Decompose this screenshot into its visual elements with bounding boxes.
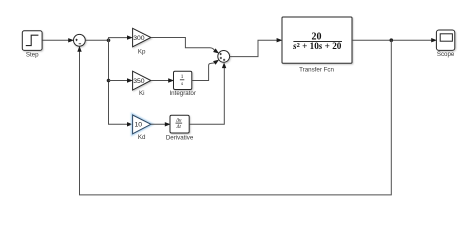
svg-text:Scope: Scope [437,51,455,58]
Sum2 plus sign upper-left [220,53,222,55]
wire Kd to Derivative [151,122,171,126]
scope block Scope [436,30,454,50]
gain block Kd value 10 (selected, blue halo) [133,115,151,134]
svg-text:1: 1 [181,74,184,80]
Sum1 plus sign (left input) [75,39,77,41]
wire branch B to Ki [109,78,133,82]
integrator block 1/s [174,71,192,89]
wire Transfer Fcn to Scope [352,38,437,42]
svg-text:300: 300 [133,35,145,42]
wire Derivative to Sum2 bottom input [189,62,226,124]
wire Integrator to Sum2 lower-left input [192,58,221,81]
svg-text:s2 + 10s + 20: s2 + 10s + 20 [292,41,342,51]
wire Step to Sum1 [42,38,74,42]
Sum2 plus sign lower-left [220,57,222,59]
Sum1 minus sign (bottom input) [79,43,81,45]
node branch A (to Kp) [107,39,111,43]
svg-text:Ki: Ki [139,90,145,97]
transfer function block 20/(s^2+10s+20) [282,17,352,63]
svg-text:Derivative: Derivative [166,135,194,142]
svg-text:Δt: Δt [176,125,182,130]
svg-text:Kp: Kp [138,49,146,56]
svg-text:Integrator: Integrator [169,90,195,97]
wire Sum1 to branch node [85,39,108,41]
wire feedback loop to Sum1 bottom input [77,40,391,195]
svg-text:Step: Step [26,51,39,58]
sum junction Sum2 (+++) [218,51,230,63]
svg-text:10: 10 [135,122,143,129]
wire Kp to Sum2 upper-left input [151,38,220,56]
gain block Ki value 350 [133,71,151,90]
node feedback tap [390,38,394,42]
sum junction Sum1 [74,34,86,46]
derivative block du/dt [170,115,189,133]
wire Ki to Integrator [151,78,174,82]
arrowhead into Kd [127,122,133,126]
Sum2 plus sign bottom [223,59,225,61]
svg-text:s: s [181,81,183,87]
node branch B (to Ki) [107,79,111,83]
svg-text:Kd: Kd [138,134,146,141]
svg-text:350: 350 [133,78,145,85]
svg-text:Transfer Fcn: Transfer Fcn [299,67,334,74]
wire Sum2 to Transfer Fcn [230,38,283,57]
wire branch A down to Ki and Kd rows [109,40,131,124]
gain block Kp value 300 [133,28,151,47]
step source block Step [22,31,42,51]
wire branch A to Kp [109,35,133,40]
